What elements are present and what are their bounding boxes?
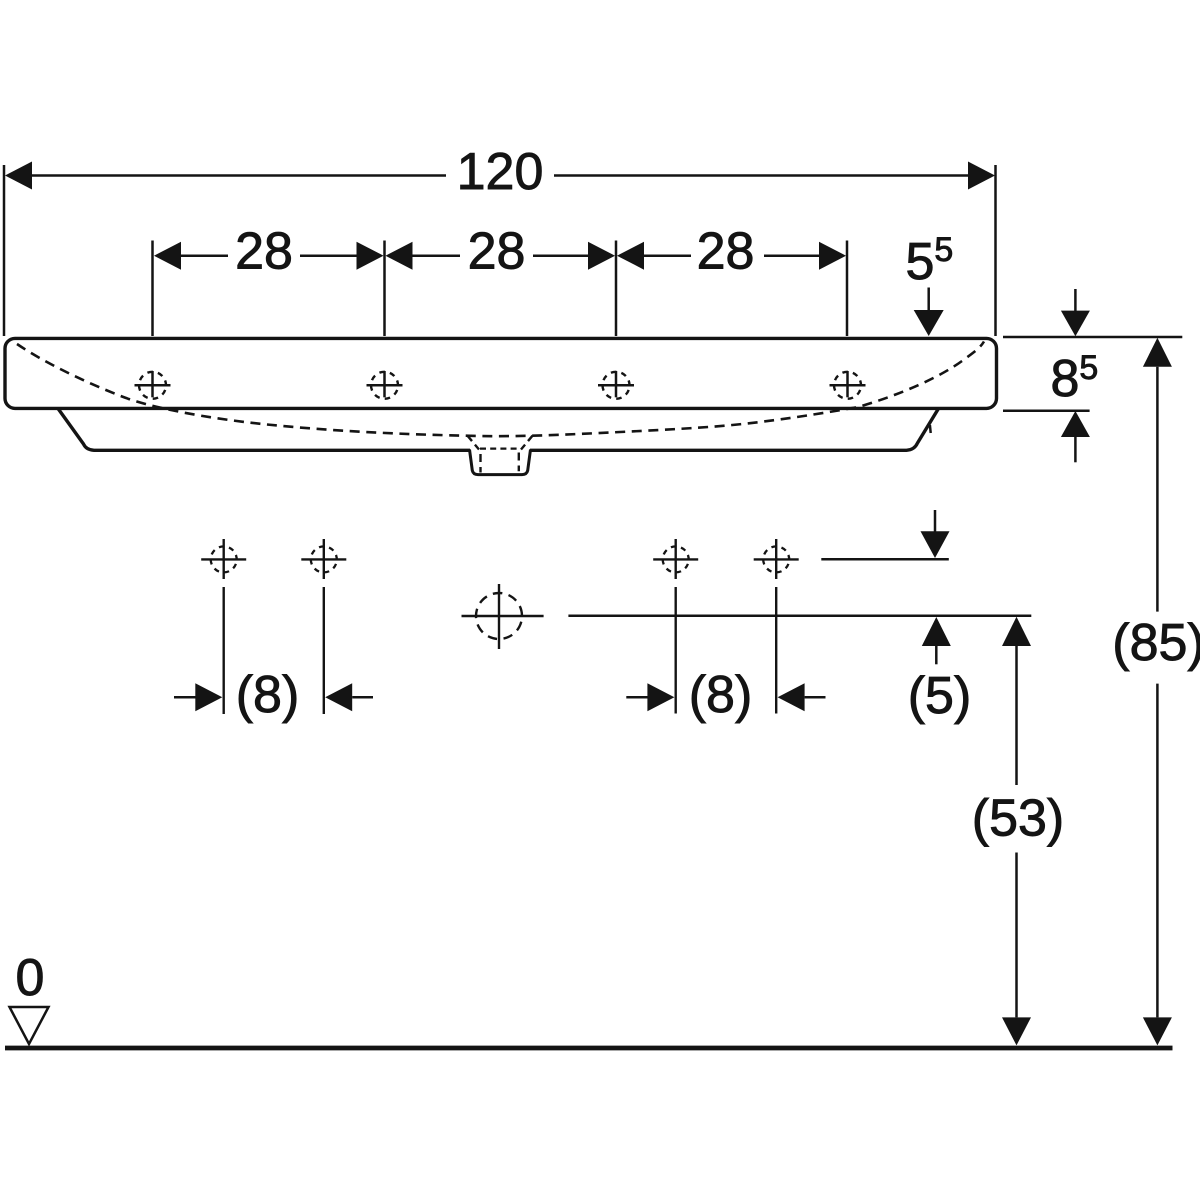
svg-text:28: 28 bbox=[697, 223, 755, 281]
svg-text:(8): (8) bbox=[689, 666, 753, 724]
svg-text:(5): (5) bbox=[908, 667, 972, 725]
svg-text:28: 28 bbox=[235, 223, 293, 281]
svg-text:(85): (85) bbox=[1112, 614, 1200, 672]
svg-text:(8): (8) bbox=[236, 666, 300, 724]
svg-text:(53): (53) bbox=[972, 790, 1064, 848]
svg-text:28: 28 bbox=[468, 223, 526, 281]
svg-text:120: 120 bbox=[457, 143, 544, 201]
svg-text:0: 0 bbox=[16, 949, 45, 1007]
